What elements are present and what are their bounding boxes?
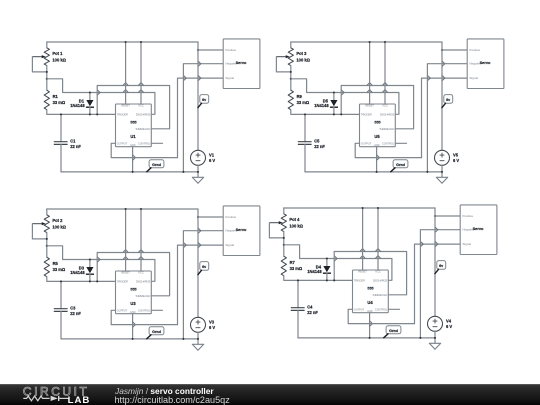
junction capacitor top [60, 113, 62, 115]
junction reset on rail [362, 207, 364, 209]
svg-text:V4: V4 [446, 319, 452, 324]
resistor R5 33 m&#937; [44, 257, 66, 277]
wire vcc pin to rail [140, 42, 142, 104]
svg-text:Pot 4: Pot 4 [289, 217, 300, 222]
op-amp/timer U4 555 [353, 270, 389, 313]
wire reset pin to rail [362, 208, 364, 270]
wire signal [415, 241, 461, 323]
junction pot bottom / wiper [46, 71, 48, 73]
servo block Servo [460, 205, 497, 255]
wire wiper loop [276, 57, 290, 72]
svg-text:33 mΩ: 33 mΩ [53, 267, 66, 272]
junction diode anode [333, 91, 335, 93]
junction negative on ground rail [182, 338, 184, 340]
svg-text:555: 555 [367, 286, 373, 290]
servo block Servo [223, 39, 260, 89]
junction vcc on rail [384, 41, 386, 43]
svg-text:U5: U5 [374, 134, 380, 139]
wire R bottom / trigger rail [47, 277, 116, 282]
svg-text:100 kΩ: 100 kΩ [52, 225, 66, 230]
svg-text:THRESHOLD: THRESHOLD [135, 294, 150, 298]
svg-text:22 nF: 22 nF [70, 311, 81, 316]
svg-text:33 mΩ: 33 mΩ [53, 100, 66, 105]
svg-text:22 nF: 22 nF [70, 144, 81, 149]
wire supply rail down to source [435, 208, 438, 316]
junction positive tap [434, 215, 436, 217]
wire ground rail [305, 171, 442, 173]
net flag Grnd [147, 160, 164, 172]
CircuitLab logo [0, 384, 110, 405]
net flag 6v [442, 95, 453, 108]
voltage source V1 6 V [191, 150, 216, 177]
wire discharge branch with jog [47, 79, 155, 115]
junction vcc on rail [140, 208, 142, 210]
wire pot top lead [290, 42, 292, 48]
svg-text:C1: C1 [70, 138, 76, 143]
svg-text:OUTPUT: OUTPUT [354, 307, 365, 311]
junction negative on ground rail [182, 171, 184, 173]
wire ground rail [61, 338, 198, 340]
junction pot node to discharge branch [290, 78, 292, 80]
junction pot node to discharge branch [46, 245, 48, 247]
wire output to signal [348, 309, 414, 323]
junction threshold link to trigger rail [96, 113, 98, 115]
svg-text:1N4148: 1N4148 [70, 103, 85, 108]
servo block Servo [223, 206, 260, 256]
wire positive [435, 215, 460, 217]
potentiometer Pot 4 100 k&#937; [269, 214, 303, 232]
svg-text:Signal: Signal [225, 76, 234, 80]
svg-text:TRIGGER: TRIGGER [354, 278, 365, 282]
potentiometer Pot 3 100 k&#937; [276, 48, 310, 66]
svg-text:6 V: 6 V [453, 158, 459, 163]
svg-text:V3: V3 [209, 320, 215, 325]
svg-text:Grnd: Grnd [152, 330, 161, 334]
svg-text:TRIGGER: TRIGGER [117, 112, 128, 116]
svg-text:LAB: LAB [68, 395, 91, 405]
svg-text:33 mΩ: 33 mΩ [290, 266, 303, 271]
voltage source V4 6 V [428, 316, 453, 343]
svg-text:6 V: 6 V [209, 158, 215, 163]
wire positive [198, 49, 223, 51]
junction vcc on rail [377, 207, 379, 209]
junction source on ground rail [434, 337, 436, 339]
wire R bottom / trigger rail [284, 276, 353, 281]
svg-text:CONTROL: CONTROL [375, 307, 388, 311]
svg-text:TRIGGER: TRIGGER [361, 112, 372, 116]
wire ground rail [298, 337, 435, 339]
wire control stub (n/c) [395, 142, 406, 144]
svg-text:C5: C5 [314, 138, 320, 143]
diode D5 1N4148 [314, 93, 338, 115]
capacitor C4 22 nF [291, 280, 319, 338]
servo block Servo [467, 39, 504, 89]
junction positive tap [197, 216, 199, 218]
wire threshold branch [334, 249, 406, 295]
svg-text:Pot 1: Pot 1 [52, 51, 63, 56]
wire gnd pin [133, 147, 136, 172]
wire negative [183, 64, 223, 172]
junction vcc on rail [140, 41, 142, 43]
wire supply rail down to source [442, 42, 445, 150]
net flag 6v [198, 262, 209, 275]
wire top rail [291, 41, 442, 43]
svg-text:DISCHARGE: DISCHARGE [136, 112, 151, 116]
wire output to signal [355, 143, 421, 157]
junction pot bottom / wiper [46, 238, 48, 240]
net flag Grnd [147, 327, 164, 339]
svg-text:Pot 3: Pot 3 [296, 51, 307, 56]
svg-text:U1: U1 [130, 134, 136, 139]
svg-text:100 kΩ: 100 kΩ [289, 224, 303, 229]
svg-text:Grnd: Grnd [389, 329, 398, 333]
junction diode cathode [89, 113, 91, 115]
wire gnd pin [133, 314, 136, 339]
svg-text:Signal: Signal [469, 76, 478, 80]
svg-text:Signal: Signal [225, 243, 234, 247]
junction gnd pin on ground rail [376, 171, 378, 173]
wire pot top lead [283, 208, 285, 214]
svg-text:Positive: Positive [225, 48, 236, 52]
svg-text:Positive: Positive [462, 214, 473, 218]
wire vcc pin to rail [384, 42, 386, 104]
svg-text:100 kΩ: 100 kΩ [52, 58, 66, 63]
junction pot bottom / wiper [283, 237, 285, 239]
wire wiper loop [32, 224, 46, 239]
svg-text:555: 555 [130, 287, 136, 291]
junction diode anode [89, 91, 91, 93]
junction diode anode [89, 258, 91, 260]
svg-text:C4: C4 [307, 304, 313, 309]
wire positive [442, 49, 467, 51]
wire signal [178, 75, 224, 157]
wire vcc pin to rail [140, 209, 142, 271]
wire negative [420, 230, 460, 338]
svg-text:Servo: Servo [236, 60, 247, 65]
svg-text:THRESHOLD: THRESHOLD [379, 127, 394, 131]
wire top rail [47, 41, 198, 43]
junction threshold link to trigger rail [333, 279, 335, 281]
wire threshold branch [97, 250, 169, 296]
svg-text:V5: V5 [453, 153, 459, 158]
svg-text:THRESHOLD: THRESHOLD [135, 127, 150, 131]
junction negative on ground rail [426, 171, 428, 173]
svg-text:Positive: Positive [225, 215, 236, 219]
svg-text:Servo: Servo [236, 227, 247, 232]
junction threshold link to trigger rail [340, 113, 342, 115]
junction threshold link to trigger rail [96, 280, 98, 282]
svg-text:CONTROL: CONTROL [382, 141, 395, 145]
voltage source V3 6 V [191, 317, 216, 344]
junction reset on rail [369, 41, 371, 43]
svg-text:Positive: Positive [469, 48, 480, 52]
wire pot bottom to R [290, 66, 292, 91]
svg-text:6 V: 6 V [446, 324, 452, 329]
svg-text:1N4148: 1N4148 [70, 270, 85, 275]
wire R bottom / trigger rail [47, 110, 116, 115]
svg-text:C3: C3 [70, 305, 76, 310]
ground [192, 177, 203, 183]
svg-text:1N4148: 1N4148 [307, 269, 322, 274]
svg-text:Servo: Servo [480, 60, 491, 65]
ground [436, 177, 447, 183]
svg-text:DISCHARGE: DISCHARGE [380, 112, 395, 116]
wire negative [427, 64, 467, 172]
wire threshold branch [97, 83, 169, 129]
svg-text:CONTROL: CONTROL [138, 141, 151, 145]
wire ground rail [61, 171, 198, 173]
junction pot bottom / wiper [290, 71, 292, 73]
junction diode cathode [333, 113, 335, 115]
capacitor C3 22 nF [54, 281, 82, 339]
svg-text:Grnd: Grnd [396, 163, 405, 167]
junction reset on rail [125, 41, 127, 43]
junction pot node to discharge branch [283, 244, 285, 246]
wire output to signal [111, 310, 177, 324]
junction diode cathode [89, 280, 91, 282]
svg-text:DISCHARGE: DISCHARGE [136, 279, 151, 283]
junction source on ground rail [197, 171, 199, 173]
svg-text:U4: U4 [367, 300, 373, 305]
svg-text:THRESHOLD: THRESHOLD [372, 293, 387, 297]
net flag Grnd [391, 160, 408, 172]
wire discharge branch with jog [284, 245, 392, 280]
capacitor C1 22 nF [54, 114, 82, 171]
wire wiper loop [32, 57, 46, 72]
resistor R1 33 m&#937; [44, 90, 66, 110]
capacitor C5 22 nF [298, 114, 326, 171]
potentiometer Pot 2 100 k&#937; [32, 215, 66, 233]
svg-text:TRIGGER: TRIGGER [117, 279, 128, 283]
wire threshold branch [341, 83, 413, 129]
svg-text:100 kΩ: 100 kΩ [296, 58, 310, 63]
svg-text:Servo: Servo [473, 226, 484, 231]
wire wiper loop [269, 223, 283, 238]
junction pot node to discharge branch [46, 78, 48, 80]
svg-text:R5: R5 [53, 261, 59, 266]
svg-text:22 nF: 22 nF [314, 144, 325, 149]
svg-text:CONTROL: CONTROL [138, 308, 151, 312]
wire pot bottom to R [283, 232, 285, 257]
svg-text:OUTPUT: OUTPUT [117, 141, 128, 145]
wire vcc pin to rail [377, 208, 379, 270]
wire signal [178, 242, 224, 324]
wire pot bottom to R [46, 233, 48, 258]
net flag Grnd [384, 326, 401, 338]
svg-text:DISCHARGE: DISCHARGE [373, 278, 388, 282]
svg-text:6 V: 6 V [209, 325, 215, 330]
wire discharge branch with jog [47, 246, 155, 281]
junction positive tap [441, 49, 443, 51]
resistor R9 33 m&#937; [288, 90, 310, 110]
junction positive tap [197, 49, 199, 51]
wire supply rail down to source [198, 209, 201, 317]
wire reset pin to rail [125, 42, 127, 104]
diode D4 1N4148 [307, 259, 331, 281]
op-amp/timer U3 555 [116, 271, 152, 314]
op-amp/timer U5 555 [360, 104, 396, 147]
svg-text:V1: V1 [209, 153, 215, 158]
wire reset pin to rail [369, 42, 371, 104]
wire negative [183, 231, 223, 339]
wire gnd pin [377, 147, 380, 172]
svg-text:U3: U3 [130, 301, 136, 306]
svg-text:Pot 2: Pot 2 [52, 218, 63, 223]
wire discharge branch with jog [291, 79, 399, 115]
svg-text:OUTPUT: OUTPUT [117, 308, 128, 312]
svg-text:R1: R1 [53, 94, 59, 99]
wire control stub (n/c) [151, 309, 162, 311]
diode D1 1N4148 [70, 93, 94, 115]
svg-text:22 nF: 22 nF [307, 310, 318, 315]
diode D3 1N4148 [70, 260, 94, 282]
ground [429, 343, 440, 349]
svg-text:R7: R7 [290, 260, 296, 265]
junction gnd pin on ground rail [369, 337, 371, 339]
junction capacitor top [60, 280, 62, 282]
net flag 6v [198, 95, 209, 108]
wire output to signal [111, 143, 177, 157]
wire control stub (n/c) [151, 142, 162, 144]
svg-text:1N4148: 1N4148 [314, 103, 329, 108]
junction gnd pin on ground rail [132, 171, 134, 173]
junction capacitor top [304, 113, 306, 115]
svg-text:R9: R9 [297, 94, 303, 99]
svg-text:555: 555 [130, 120, 136, 124]
wire gnd pin [370, 313, 373, 338]
wire control stub (n/c) [388, 308, 399, 310]
svg-text:Grnd: Grnd [152, 163, 161, 167]
junction gnd pin on ground rail [132, 338, 134, 340]
op-amp/timer U1 555 [116, 104, 152, 147]
wire reset pin to rail [125, 209, 127, 271]
junction source on ground rail [441, 171, 443, 173]
junction diode cathode [326, 279, 328, 281]
wire positive [198, 216, 223, 218]
wire pot top lead [46, 209, 48, 215]
resistor R7 33 m&#937; [281, 256, 303, 276]
wire signal [422, 75, 468, 157]
wire pot bottom to R [46, 66, 48, 91]
wire top rail [47, 208, 198, 210]
junction capacitor top [297, 279, 299, 281]
svg-text:OUTPUT: OUTPUT [361, 141, 372, 145]
net flag 6v [435, 261, 446, 274]
junction diode anode [326, 257, 328, 259]
voltage source V5 6 V [435, 150, 460, 177]
wire supply rail down to source [198, 42, 201, 150]
wire top rail [284, 207, 435, 209]
potentiometer Pot 1 100 k&#937; [32, 48, 66, 66]
svg-text:555: 555 [374, 120, 380, 124]
svg-text:33 mΩ: 33 mΩ [297, 100, 310, 105]
junction source on ground rail [197, 338, 199, 340]
ground [192, 344, 203, 350]
wire pot top lead [46, 42, 48, 48]
wire R bottom / trigger rail [291, 110, 360, 115]
svg-text:Signal: Signal [462, 242, 471, 246]
junction reset on rail [125, 208, 127, 210]
junction negative on ground rail [419, 337, 421, 339]
